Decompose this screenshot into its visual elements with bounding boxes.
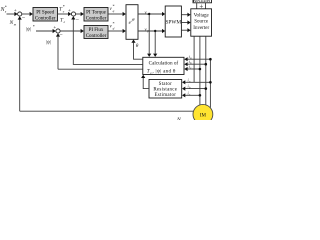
svg-text:Resistance: Resistance [153,88,177,93]
svg-text:PI Flux: PI Flux [89,28,104,33]
svg-text:Controller: Controller [35,17,56,22]
PI torque controller box [84,8,108,22]
node Nr* input label [0,5,7,15]
wire flux junction to PI flux controller [60,30,81,32]
svg-text:|ψ|: |ψ| [46,41,52,46]
svg-text:*: * [33,24,35,29]
svg-text:+: + [53,26,56,31]
phase line b from VSI to motor [199,36,201,105]
wire junction to PI speed controller [22,13,30,15]
wire flux ref to flux junction [36,30,53,32]
wire Te feedback from calculation to torque junction [73,19,143,64]
PI flux controller box [84,26,108,39]
rectifier box top cut [193,0,212,3]
svg-text:PI Speed: PI Speed [36,11,54,16]
wire Nm feedback vertical [19,19,21,111]
node Te feedback label [60,18,66,25]
node Nm feedback label [9,20,17,27]
wire SPWM to VSI a [181,14,187,16]
svg-text:Controller: Controller [86,34,107,39]
wire torque junction to PI torque controller [76,13,81,15]
wire flux feedback vertical with arrow [57,36,59,69]
wire current tap ic to calculation [187,68,200,70]
wire v beta to SPWM [138,30,162,32]
wire current tap ib to calculation [187,63,205,65]
svg-text:|ψ|: |ψ| [26,27,32,32]
node vd* label [110,21,115,31]
wire v beta tap down to calculation block [154,31,156,54]
wire voltage tap vc to estimator [185,94,200,96]
SPWM block [165,6,181,37]
node flux feedback label [46,41,52,46]
calculation block [143,57,184,74]
svg-text:jθ: jθ [131,18,135,22]
wire PI torque to ejt block [108,13,123,15]
svg-text:Estimator: Estimator [154,93,176,98]
svg-text:*: * [112,4,114,9]
node v alpha label [145,9,150,16]
svg-text:*: * [5,5,7,10]
svg-text:−: − [76,18,80,24]
svg-text:Source: Source [194,20,209,25]
wire Nm speed feedback from motor along bottom [20,110,194,112]
node Nm label bottom [176,117,184,123]
wire current tap ia to calculation [188,58,210,60]
phase line c from VSI to motor [205,36,207,104]
wire SPWM to VSI b [181,22,187,24]
voltage source inverter box [191,9,212,36]
node Te* label [59,4,65,14]
svg-text:q: q [113,9,115,13]
svg-text:Calculation of: Calculation of [149,60,179,67]
wire v alpha to SPWM [138,13,162,15]
rotation transform block e^jtheta [126,5,138,40]
wire Rs from estimator to calculation [143,78,149,89]
wire voltage tap vb to estimator [185,88,206,90]
node vq* label [110,4,115,14]
PI speed controller box [33,8,58,22]
svg-text:Controller: Controller [86,17,107,22]
wire right vertical to motor [209,59,211,107]
summing junction torque [71,12,75,16]
induction motor circle [193,104,213,124]
svg-text:, |ψ| and θ: , |ψ| and θ [152,69,176,75]
svg-text:+: + [14,9,17,14]
wire v alpha tap down to calculation block [148,14,150,54]
wire SPWM to VSI c [181,29,187,31]
stator resistance estimator box [149,80,182,99]
wire voltage tap va to estimator [185,81,210,83]
svg-text:PI Torque: PI Torque [86,11,106,16]
svg-text:+: + [68,9,71,14]
svg-text:IM: IM [200,113,207,118]
wire theta feedback from calculation to ejt [134,43,143,60]
svg-text:*: * [63,4,65,9]
wire PI flux to ejt block [108,30,123,32]
wire flux feedback from calculation to flux junction [58,68,143,70]
svg-text:d: d [113,27,115,31]
svg-text:Inverter: Inverter [193,26,209,31]
wire PI speed to torque junction [58,13,69,15]
svg-text:SPWM: SPWM [165,20,181,26]
svg-text:N: N [9,20,14,26]
node flux ref label [26,24,35,33]
summing junction speed [18,12,22,16]
summing junction flux [56,29,60,33]
svg-text:N: N [176,117,181,120]
svg-text:Stator: Stator [159,82,173,87]
svg-text:Voltage: Voltage [194,13,210,18]
node v beta label [145,26,150,33]
wire Nr* to speed summing junction [7,13,15,15]
dc link wires with plus [196,3,198,9]
phase line a from VSI [193,36,195,82]
svg-text:*: * [112,21,114,26]
